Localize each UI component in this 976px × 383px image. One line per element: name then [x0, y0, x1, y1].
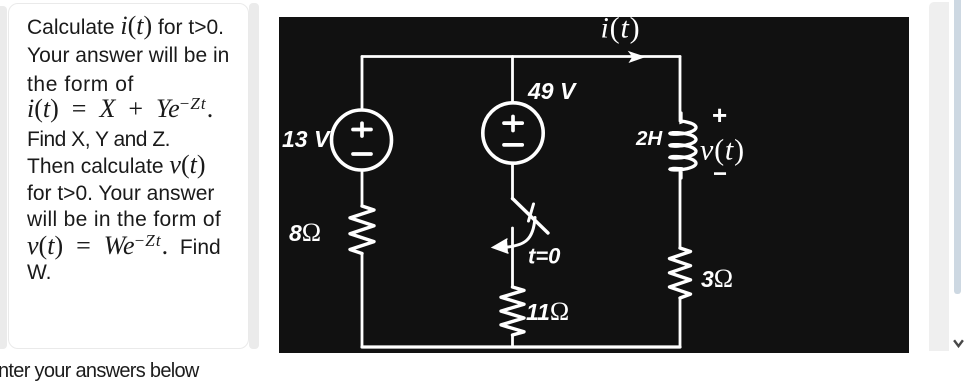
- switch SW blade: [513, 199, 549, 234]
- svg-text:−: −: [713, 161, 727, 188]
- gray strip right of card: [249, 3, 259, 349]
- wire right branch mid: [679, 170, 682, 248]
- wire middle lower: [511, 335, 514, 347]
- scrollbar thumb: [954, 0, 961, 294]
- V2 minus: [504, 143, 522, 147]
- chevron down: [953, 339, 965, 349]
- wire right branch upper: [679, 57, 682, 122]
- svg-text:8Ω: 8Ω: [289, 218, 321, 247]
- wire top: left corner to right corner: [362, 55, 680, 58]
- switch tick: [529, 204, 534, 221]
- wire middle below switch: [511, 228, 514, 287]
- V1 minus: [353, 152, 371, 156]
- question card: [8, 3, 249, 349]
- wire middle branch upper: [511, 57, 514, 104]
- svg-text:i(t): i(t): [601, 17, 641, 45]
- svg-text:13 V: 13 V: [282, 126, 331, 152]
- wire bottom: [362, 345, 680, 348]
- wire middle to switch: [511, 163, 514, 199]
- V1 plus: [353, 123, 371, 136]
- svg-text:11Ω: 11Ω: [526, 297, 569, 326]
- left gray strip: [0, 6, 7, 349]
- svg-text:49 V: 49 V: [527, 78, 577, 104]
- voltage source V1 13V: [332, 110, 392, 170]
- V2 plus: [504, 117, 522, 131]
- resistor R2 11ohm zigzag: [501, 287, 524, 335]
- wire left branch mid: [361, 170, 364, 206]
- bottom text: [0, 360, 199, 383]
- svg-text:t=0: t=0: [528, 244, 561, 269]
- switch arrowhead: [493, 239, 509, 253]
- wire right branch lower: [679, 298, 682, 347]
- wire left branch upper: [361, 57, 364, 111]
- question text: [27, 12, 224, 42]
- right gray strip: [929, 2, 949, 351]
- svg-text:3Ω: 3Ω: [701, 264, 733, 293]
- switch arc arrow t=0: [501, 218, 535, 248]
- resistor R1 8ohm zigzag: [350, 206, 374, 254]
- resistor R3 3ohm zigzag: [670, 248, 691, 298]
- voltage source V2 49V: [483, 103, 543, 163]
- inductor L1 2H coil: [670, 113, 696, 178]
- wire left branch lower: [361, 254, 364, 348]
- svg-text:2H: 2H: [635, 127, 663, 150]
- svg-text:+: +: [712, 100, 727, 130]
- current arrow i(t) on top wire: [628, 51, 646, 63]
- circuit panel: [279, 17, 909, 353]
